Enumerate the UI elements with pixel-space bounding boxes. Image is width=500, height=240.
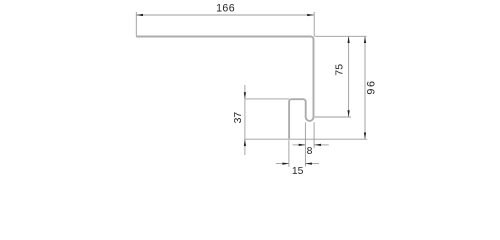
dimension 75/96: top extension line [315, 35, 367, 37]
dimension 166: right arrow [307, 14, 314, 16]
dimension 166: extension line right [313, 12, 315, 37]
svg-text:96: 96 [365, 79, 377, 94]
dimension 15: left arrow (pointing right) [282, 163, 289, 165]
dimension 15: left leader line [276, 163, 289, 165]
svg-text:8: 8 [307, 146, 313, 157]
dimension 96: bottom arrow [364, 133, 366, 140]
dimension 96: bottom extension line [245, 138, 367, 140]
dimension 8: right arrow (pointing left) [314, 144, 321, 146]
dimension 166: value label [216, 3, 235, 15]
svg-text:15: 15 [292, 166, 304, 177]
dimension 75: top arrow [348, 36, 350, 43]
dimension 8: left leader line [293, 144, 306, 146]
dimension 8: right extension line [313, 122, 315, 148]
dimension 15: right leader line [305, 163, 319, 165]
dimension 75: bottom extension line [315, 116, 351, 118]
dimension 37: top extension line [245, 98, 289, 100]
svg-text:37: 37 [233, 112, 244, 124]
dimension 37: top arrow (outside, pointing down) [244, 92, 246, 99]
svg-text:166: 166 [216, 3, 235, 15]
dimension 8: left extension line [304, 122, 306, 166]
dimension 96: value label [365, 79, 377, 94]
dimension 96: top arrow [364, 36, 366, 43]
svg-text:75: 75 [335, 64, 346, 76]
dimension 166: left arrow [136, 14, 143, 16]
dimension 37: bottom arrow (outside, pointing up) [244, 139, 246, 146]
dimension 75: bottom arrow [348, 110, 350, 117]
dimension 96: dimension line [364, 36, 366, 139]
dimension 166: extension line left [135, 12, 137, 37]
dimension 8: value label [307, 146, 313, 157]
dimension 15: right arrow (pointing left) [305, 163, 312, 165]
dimension 15: left extension line [288, 140, 290, 167]
dimension 37: dimension line [244, 85, 246, 155]
profile outline (sheet metal cross-section) [136, 37, 313, 139]
dimension 75: dimension line [348, 36, 350, 117]
dimension 37: value label [233, 112, 244, 124]
dimension 166: dimension line [136, 14, 314, 16]
dimension 8: right leader line [314, 144, 329, 146]
dimension 15: value label [292, 166, 304, 177]
dimension 75: value label [335, 64, 346, 76]
dimension 8: left arrow (pointing right) [299, 144, 306, 146]
